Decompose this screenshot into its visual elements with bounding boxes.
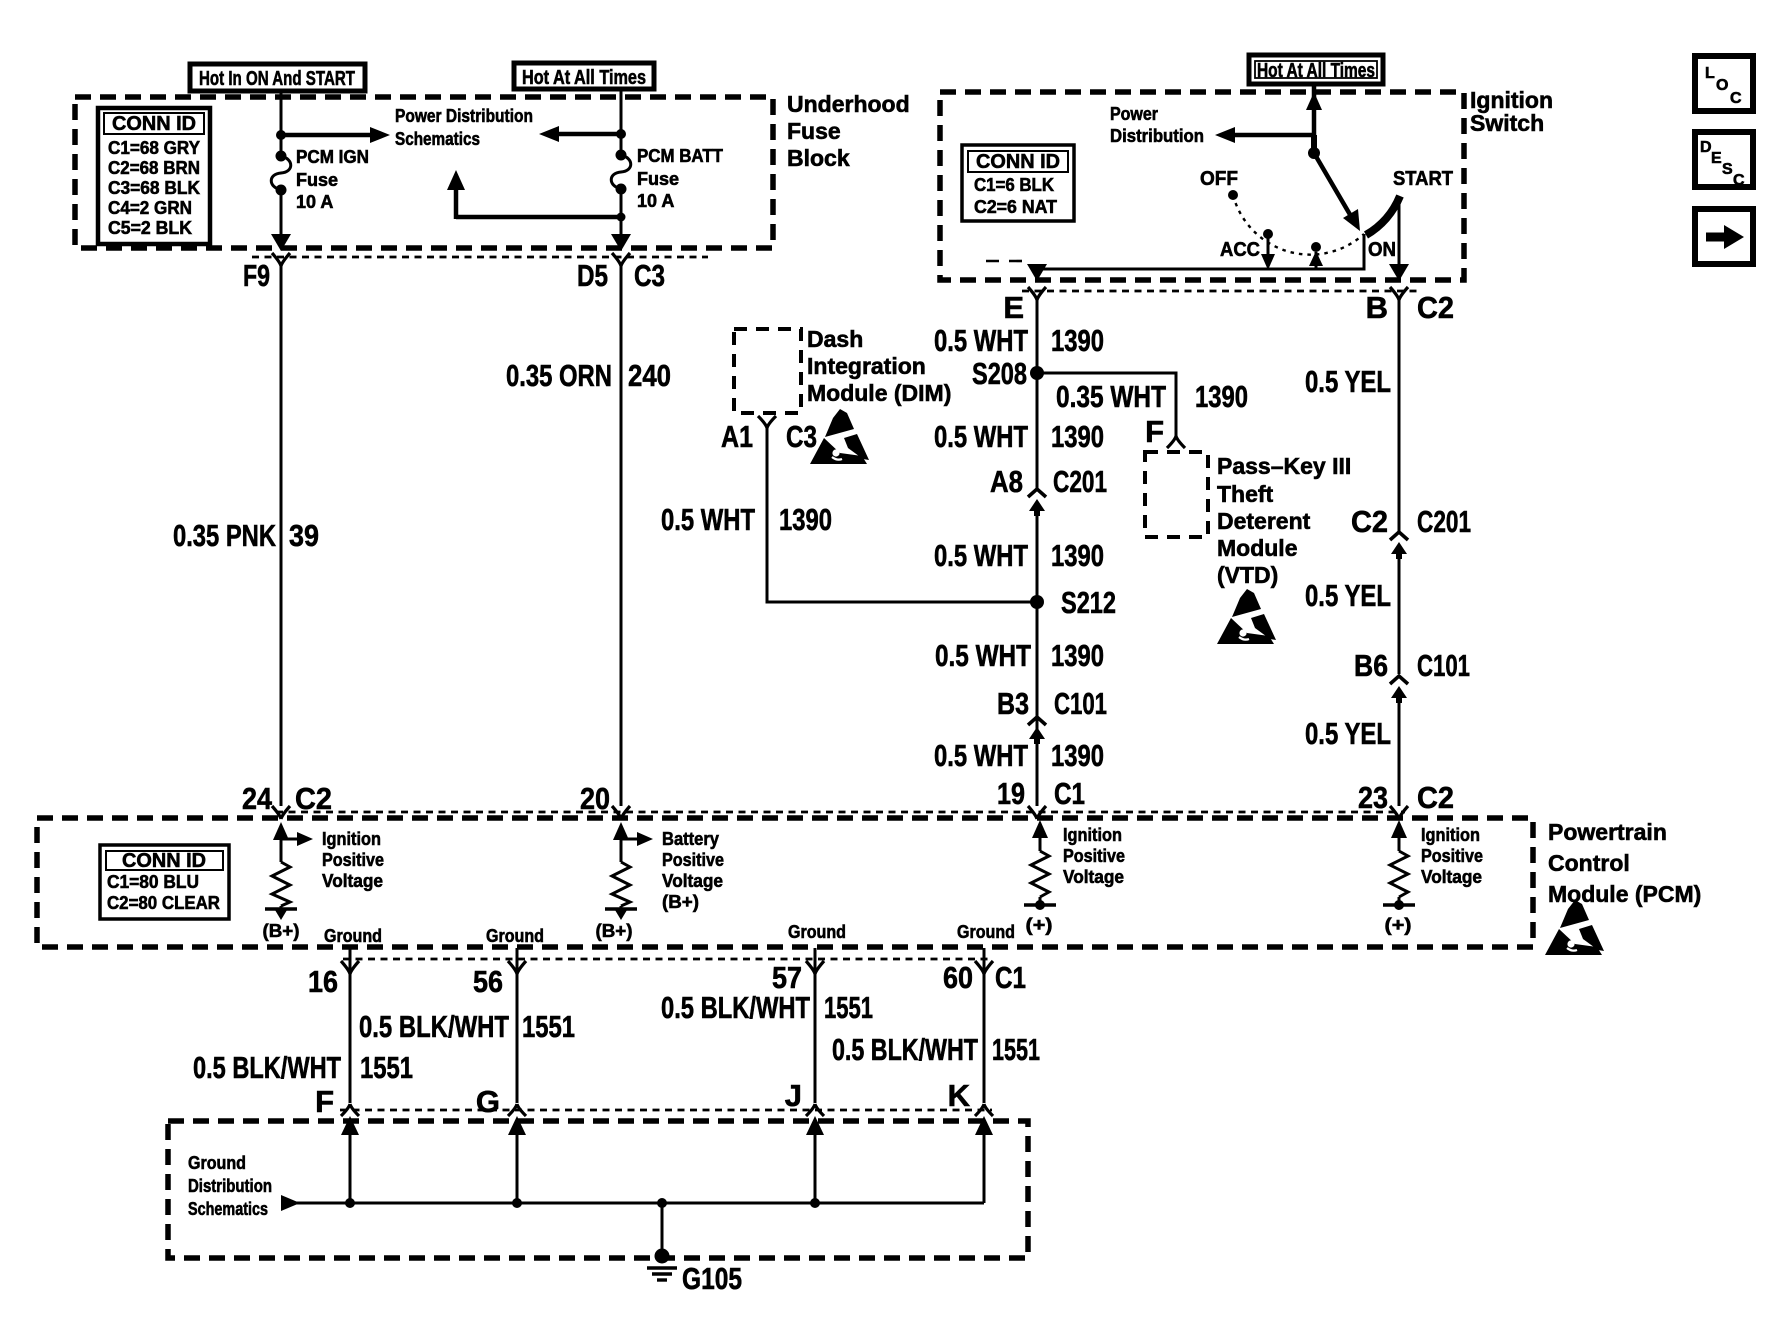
node G junction: [512, 1198, 522, 1208]
svg-text:D5: D5: [577, 258, 608, 293]
svg-text:Hot At All Times: Hot At All Times: [1257, 60, 1375, 82]
node F junction: [345, 1198, 355, 1208]
svg-text:S: S: [1722, 161, 1733, 178]
svg-text:Underhood: Underhood: [787, 91, 910, 117]
wire arrow to Power Distribution Schematics: [281, 133, 376, 138]
svg-text:OFF: OFF: [1200, 168, 1238, 190]
node junction on PCM IGN feed: [276, 130, 286, 140]
svg-text:A1: A1: [721, 419, 753, 454]
svg-text:F9: F9: [243, 258, 270, 293]
PCM input resistor pin 23 (Ignition Positive Voltage): [1383, 820, 1415, 910]
svg-text:Ground: Ground: [957, 922, 1015, 942]
svg-text:0.5 YEL: 0.5 YEL: [1305, 578, 1391, 613]
wire from Hot At All Times down: [620, 88, 623, 151]
connector cup pin 56: [508, 961, 526, 974]
svg-text:56: 56: [473, 964, 503, 999]
inline connector C201 chevrons (right wire): [1390, 532, 1408, 540]
svg-text:C2=6 NAT: C2=6 NAT: [974, 197, 1057, 217]
connector cup E: [1028, 287, 1046, 300]
svg-text:Hot In ON And START: Hot In ON And START: [199, 68, 355, 90]
svg-text:Schematics: Schematics: [188, 1199, 268, 1219]
node J junction: [810, 1198, 820, 1208]
svg-text:ACC: ACC: [1220, 239, 1260, 261]
connector cup pin 19: [1028, 806, 1046, 819]
svg-text:Block: Block: [787, 145, 850, 171]
svg-text:Deterent: Deterent: [1217, 508, 1311, 534]
svg-text:Ignition: Ignition: [322, 829, 381, 849]
connector cup pin 60: [975, 961, 993, 974]
svg-text:C1: C1: [995, 960, 1026, 995]
svg-text:Pass–Key III: Pass–Key III: [1217, 453, 1351, 479]
svg-text:Voltage: Voltage: [1063, 867, 1124, 887]
svg-text:S208: S208: [972, 356, 1027, 391]
svg-text:E: E: [1003, 290, 1024, 325]
wire START output down to B: [1398, 197, 1401, 271]
dashed switch arc OFF to ON: [1233, 195, 1364, 255]
svg-text:0.5 BLK/WHT: 0.5 BLK/WHT: [832, 1032, 978, 1067]
svg-text:B6: B6: [1354, 648, 1388, 683]
svg-text:CONN ID: CONN ID: [122, 850, 206, 872]
PCM input resistor pin 19 (Ignition Positive Voltage): [1024, 820, 1056, 910]
svg-text:C3: C3: [634, 258, 665, 293]
inline connector C201 chevrons: [1028, 489, 1046, 497]
wire branch S212 to DIM pin A1 (0.5 WHT 1390): [767, 428, 1037, 602]
svg-text:C2: C2: [295, 781, 332, 816]
wire PCM pin 60 to G105 connector K: [983, 948, 986, 1103]
PCM input resistor pin 20 (Battery Positive Voltage): [605, 822, 653, 920]
svg-text:Voltage: Voltage: [662, 871, 723, 891]
flag box Hot In ON And START: [190, 64, 365, 91]
svg-text:1390: 1390: [1051, 538, 1104, 573]
wire D5 to PCM pin 20 (0.35 ORN 240): [620, 264, 623, 806]
svg-text:(+): (+): [1026, 915, 1053, 935]
wire PCM BATT fuse down to D5: [620, 189, 623, 240]
connector cup F (opens down): [341, 1104, 359, 1116]
Dash Integration Module dashed box: [734, 329, 801, 413]
connector cup J (opens down): [806, 1104, 824, 1116]
svg-text:Schematics: Schematics: [395, 129, 480, 149]
wire from Hot In ON And START down: [280, 90, 283, 152]
svg-text:Positive: Positive: [1063, 846, 1125, 866]
splice node S208: [1030, 366, 1044, 380]
svg-text:1390: 1390: [1051, 738, 1104, 773]
corner icon LOC box: [1695, 56, 1753, 111]
svg-text:(+): (+): [1385, 915, 1412, 935]
svg-text:0.35 ORN: 0.35 ORN: [506, 358, 612, 393]
connector cup F9: [272, 253, 290, 266]
svg-text:C1=80 BLU: C1=80 BLU: [107, 872, 199, 892]
svg-text:240: 240: [628, 358, 671, 393]
connector dotted line below PCM: [343, 958, 992, 961]
svg-text:0.5 WHT: 0.5 WHT: [661, 502, 755, 537]
connector dotted line under ignition box: [1022, 290, 1420, 293]
svg-text:Ignition: Ignition: [1421, 825, 1480, 845]
svg-text:Hot At All Times: Hot At All Times: [522, 67, 646, 89]
wire F drop with up arrow: [349, 1130, 352, 1203]
node ACC with contact arrow down: [1261, 229, 1275, 270]
svg-text:Positive: Positive: [662, 850, 724, 870]
Ignition Switch dashed box: [940, 92, 1464, 280]
svg-text:S212: S212: [1061, 585, 1116, 620]
node junction on PCM BATT feed: [616, 129, 626, 139]
svg-text:Powertrain: Powertrain: [1548, 819, 1667, 845]
svg-text:C: C: [1730, 90, 1742, 107]
wire F9 to PCM pin 24 (0.35 PNK 39): [280, 264, 283, 806]
svg-text:24: 24: [242, 781, 273, 816]
connector cup pin 20: [612, 806, 630, 819]
wire J drop with up arrow: [814, 1130, 817, 1203]
svg-text:C2=80 CLEAR: C2=80 CLEAR: [107, 893, 220, 913]
svg-text:O: O: [1716, 77, 1728, 94]
svg-text:G105: G105: [682, 1261, 742, 1296]
svg-text:J: J: [785, 1078, 802, 1113]
svg-text:0.35 PNK: 0.35 PNK: [173, 518, 276, 553]
switch blade arrow toward ON: [1314, 153, 1352, 218]
switch pivot stem: [1311, 135, 1317, 150]
svg-text:1551: 1551: [824, 990, 873, 1025]
inline connector C101 chevrons (middle wire): [1028, 717, 1046, 725]
svg-text:0.5 WHT: 0.5 WHT: [934, 323, 1028, 358]
wire B to C2/C201: [1398, 297, 1401, 531]
svg-text:ON: ON: [1368, 239, 1396, 261]
flag box Hot At All Times (left): [514, 63, 654, 89]
svg-text:(B+): (B+): [263, 921, 300, 941]
wire PCM pin 56 to G105 connector G: [516, 948, 519, 1103]
svg-text:C2=68 BRN: C2=68 BRN: [108, 158, 200, 178]
svg-text:Distribution: Distribution: [1110, 126, 1204, 146]
svg-text:D: D: [1700, 139, 1712, 156]
svg-text:C2: C2: [1351, 504, 1388, 539]
ESD symbol (DIM): [810, 409, 869, 464]
svg-text:0.5 WHT: 0.5 WHT: [935, 638, 1031, 673]
Ground Distribution dashed box: [168, 1121, 1028, 1258]
connector cup A1 (into DIM): [758, 416, 776, 428]
fuse PCM IGN 10A: [271, 151, 291, 196]
svg-text:C1=68 GRY: C1=68 GRY: [108, 138, 200, 158]
CONN ID table (ignition): [962, 145, 1074, 221]
svg-text:C: C: [1733, 172, 1745, 189]
wire PCM pin 57 to G105 connector J: [814, 948, 817, 1103]
connector cup pin 24: [272, 806, 290, 819]
connector cup B: [1390, 287, 1408, 300]
svg-text:0.5 YEL: 0.5 YEL: [1305, 716, 1391, 751]
CONN ID table (PCM): [100, 845, 229, 919]
Underhood Fuse Block dashed box: [75, 97, 773, 248]
svg-text:CONN ID: CONN ID: [112, 113, 196, 135]
Powertrain Control Module dashed box: [37, 818, 1533, 947]
wire branch with up arrow to power distribution: [447, 170, 626, 222]
svg-text:C201: C201: [1053, 464, 1107, 499]
svg-text:0.5 BLK/WHT: 0.5 BLK/WHT: [359, 1009, 509, 1044]
svg-text:(B+): (B+): [662, 892, 699, 912]
svg-text:C101: C101: [1054, 686, 1107, 721]
svg-text:Ground: Ground: [788, 922, 846, 942]
svg-text:PCM IGN: PCM IGN: [296, 147, 369, 167]
svg-text:0.5 WHT: 0.5 WHT: [934, 419, 1028, 454]
wire C201 to B6/C101 (right): [1398, 553, 1401, 674]
Pass-Key III VTD dashed box: [1145, 452, 1208, 537]
svg-text:0.5 YEL: 0.5 YEL: [1305, 364, 1391, 399]
svg-text:Fuse: Fuse: [637, 169, 679, 189]
svg-text:10 A: 10 A: [637, 191, 674, 211]
svg-text:A8: A8: [990, 464, 1023, 499]
svg-text:Voltage: Voltage: [322, 871, 383, 891]
corner icon DESC box: [1695, 132, 1753, 189]
svg-text:Switch: Switch: [1470, 110, 1544, 136]
svg-text:B: B: [1366, 290, 1388, 325]
connector cup D5/C3: [612, 253, 630, 266]
svg-text:0.5 WHT: 0.5 WHT: [934, 738, 1028, 773]
svg-text:1390: 1390: [1195, 379, 1248, 414]
CONN ID table (underhood): [98, 108, 210, 244]
svg-text:Module: Module: [1217, 535, 1298, 561]
connector cup pin 23: [1390, 806, 1408, 819]
svg-text:C5=2 BLK: C5=2 BLK: [108, 218, 192, 238]
connector cup pin 16: [341, 961, 359, 974]
svg-text:Positive: Positive: [322, 850, 384, 870]
svg-text:23: 23: [1358, 780, 1388, 815]
corner icon arrow box: [1695, 209, 1753, 264]
svg-text:1551: 1551: [522, 1009, 575, 1044]
svg-text:C101: C101: [1417, 648, 1470, 683]
ESD symbol (PCM): [1545, 900, 1604, 955]
ESD symbol (VTD): [1217, 589, 1276, 644]
svg-text:L: L: [1705, 65, 1715, 82]
svg-text:Distribution: Distribution: [188, 1176, 272, 1196]
wire E to S208: [1036, 297, 1039, 488]
ground G105 symbol: [647, 1203, 677, 1280]
svg-text:Dash: Dash: [807, 326, 863, 352]
svg-text:Ground: Ground: [188, 1153, 246, 1173]
node OFF: [1228, 190, 1238, 200]
svg-text:Ignition: Ignition: [1063, 825, 1122, 845]
svg-text:1551: 1551: [992, 1032, 1040, 1067]
svg-text:G: G: [476, 1084, 500, 1119]
svg-text:Module (PCM): Module (PCM): [1548, 881, 1701, 907]
wire arrow (left) to Power Distribution Schematics: [553, 132, 621, 137]
svg-text:16: 16: [308, 964, 338, 999]
svg-text:Voltage: Voltage: [1421, 867, 1482, 887]
svg-text:Ground: Ground: [324, 926, 382, 946]
svg-text:1390: 1390: [1051, 638, 1104, 673]
svg-text:Integration: Integration: [807, 353, 926, 379]
svg-text:0.35 WHT: 0.35 WHT: [1056, 379, 1166, 414]
connector cup G (opens down): [508, 1104, 526, 1116]
wire C201 to S212: [1036, 510, 1039, 806]
inline connector C101 chevrons (right wire): [1390, 676, 1408, 684]
svg-text:F: F: [1145, 414, 1164, 449]
svg-text:0.5 BLK/WHT: 0.5 BLK/WHT: [661, 990, 810, 1025]
wire G drop with up arrow: [516, 1130, 519, 1203]
svg-text:C3=68 BLK: C3=68 BLK: [108, 178, 200, 198]
svg-text:C1=6 BLK: C1=6 BLK: [974, 175, 1054, 195]
svg-text:C3: C3: [786, 419, 817, 454]
svg-text:C2: C2: [1417, 290, 1454, 325]
svg-text:(B+): (B+): [596, 921, 633, 941]
wire PCM pin 16 to G105 connector F: [349, 948, 352, 1103]
svg-text:K: K: [948, 1078, 971, 1113]
connector dotted line under underhood box: [252, 256, 708, 259]
connector cup F (into VTD): [1167, 436, 1185, 448]
svg-text:Control: Control: [1548, 850, 1630, 876]
connector cup K (opens down): [975, 1104, 993, 1116]
svg-text:19: 19: [997, 776, 1025, 811]
wire K drop with up arrow: [983, 1130, 986, 1203]
svg-text:(VTD): (VTD): [1217, 562, 1278, 588]
stray connector dashes left of E: [986, 260, 1024, 263]
svg-text:PCM BATT: PCM BATT: [637, 146, 723, 166]
connector dotted line above ground box: [340, 1109, 992, 1112]
svg-text:10 A: 10 A: [296, 192, 333, 212]
svg-text:START: START: [1393, 168, 1453, 190]
flag box Hot At All Times (right): [1249, 55, 1383, 84]
wire branch S208 to VTD pin F (0.35 WHT 1390): [1037, 373, 1176, 437]
svg-text:Fuse: Fuse: [787, 118, 841, 144]
fuse PCM BATT 10A: [611, 150, 631, 195]
wire ON/ACC output bus to E: [1037, 234, 1364, 271]
svg-text:Battery: Battery: [662, 829, 719, 849]
wire PCM IGN fuse down to F9: [280, 190, 283, 240]
svg-text:1390: 1390: [779, 502, 832, 537]
wire arrow to Power Distribution: [1229, 133, 1314, 138]
svg-text:1390: 1390: [1051, 323, 1104, 358]
PCM input resistor pin 24 (Ignition Positive Voltage): [265, 822, 313, 920]
svg-text:39: 39: [289, 518, 319, 553]
svg-text:0.5 WHT: 0.5 WHT: [934, 538, 1028, 573]
svg-text:60: 60: [943, 960, 973, 995]
connector cup pin 57: [806, 961, 824, 974]
svg-text:C201: C201: [1417, 504, 1471, 539]
wire feed from Hot At All Times into switch: [1312, 84, 1317, 136]
svg-text:Positive: Positive: [1421, 846, 1483, 866]
svg-text:B3: B3: [997, 686, 1029, 721]
svg-text:E: E: [1711, 150, 1722, 167]
svg-text:C4=2 GRN: C4=2 GRN: [108, 198, 192, 218]
svg-text:0.5 BLK/WHT: 0.5 BLK/WHT: [193, 1050, 341, 1085]
svg-text:C1: C1: [1054, 776, 1085, 811]
thick arc ON to START: [1366, 196, 1400, 235]
node arc mid contact with arrow up: [1309, 242, 1323, 269]
svg-text:Theft: Theft: [1217, 481, 1274, 507]
node G105 stem junction: [657, 1198, 667, 1208]
splice node S212: [1030, 595, 1044, 609]
svg-text:Ground: Ground: [486, 926, 544, 946]
svg-text:Module (DIM): Module (DIM): [807, 380, 951, 406]
svg-text:F: F: [315, 1084, 334, 1119]
svg-text:Fuse: Fuse: [296, 170, 338, 190]
svg-text:20: 20: [580, 781, 610, 816]
ground bus wire: [296, 1202, 984, 1205]
svg-text:Power Distribution: Power Distribution: [395, 106, 533, 126]
connector dotted line above PCM: [276, 811, 1405, 814]
svg-text:CONN ID: CONN ID: [976, 151, 1060, 173]
svg-text:1390: 1390: [1051, 419, 1104, 454]
svg-text:1551: 1551: [360, 1050, 413, 1085]
arrow from Ground Distribution Schematics: [281, 1195, 300, 1211]
wire C101 to PCM pin 23: [1398, 697, 1401, 806]
svg-text:C2: C2: [1417, 780, 1454, 815]
svg-text:Power: Power: [1110, 104, 1158, 124]
